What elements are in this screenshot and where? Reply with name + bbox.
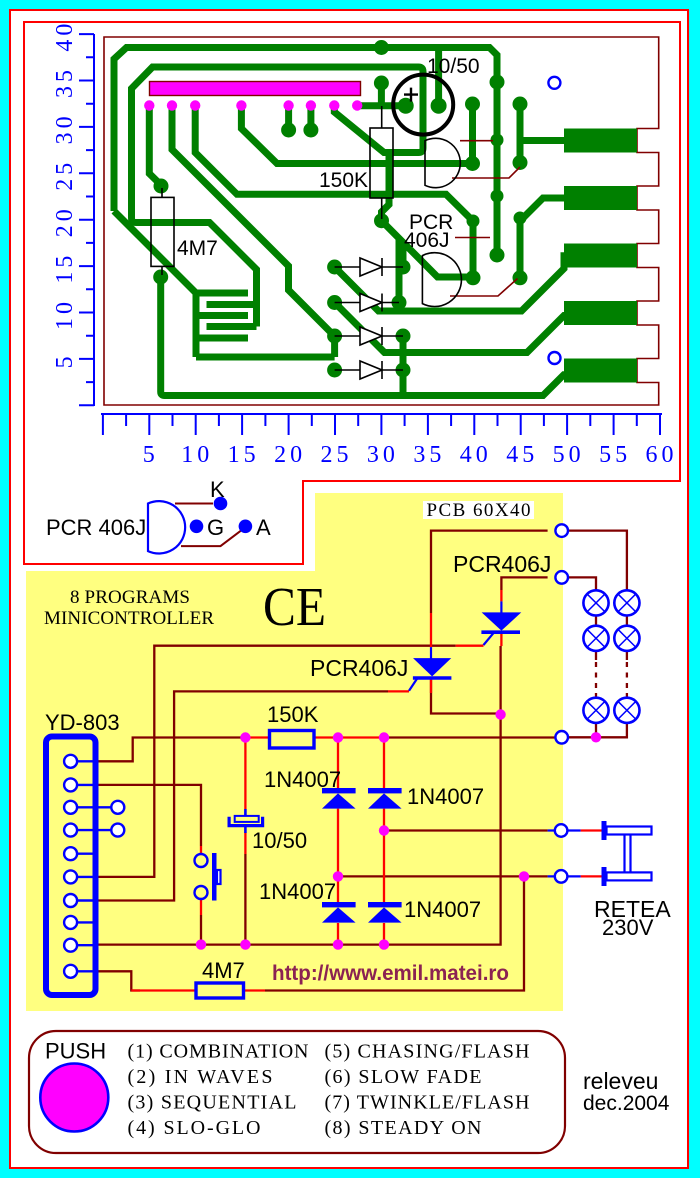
svg-text:PCR 406J: PCR 406J xyxy=(46,515,146,540)
wire red cap column xyxy=(244,738,246,855)
transistor T2 outline xyxy=(422,253,461,307)
wire body to K xyxy=(175,503,213,505)
wire diode1 cathode stub xyxy=(400,243,407,267)
wire trace2 pad7 to right comb xyxy=(132,67,424,327)
node circle 4 xyxy=(555,824,568,837)
wire diode2 staircase to bar4 xyxy=(335,303,572,353)
svg-text:40: 40 xyxy=(52,20,78,52)
capacitor pad minus xyxy=(431,98,447,114)
via dot diode2 anode xyxy=(327,295,342,310)
pin circle 4 xyxy=(64,824,77,837)
svg-text:55: 55 xyxy=(599,442,631,468)
via dot colF top xyxy=(514,212,527,225)
wire diode1 staircase to bar3 xyxy=(335,256,572,311)
via dot diode3 cathode xyxy=(396,329,411,344)
junction dot colA top xyxy=(333,732,343,742)
wire pin7 to triac1 gate xyxy=(97,691,388,900)
node circle 1 xyxy=(555,524,568,537)
diode D4 pcb xyxy=(335,361,403,379)
connector pad bar2 xyxy=(564,186,637,210)
resistor 150K body xyxy=(270,731,315,749)
via dot pad5 xyxy=(281,123,296,138)
wire red diode colA xyxy=(337,738,339,945)
pad6 xyxy=(306,100,316,110)
lamp 3 xyxy=(583,626,608,651)
svg-text:40: 40 xyxy=(460,442,492,468)
wire 4M7 to node5 riser xyxy=(265,876,524,990)
yellow schematic background xyxy=(26,571,563,1011)
mount hole top right xyxy=(548,77,560,89)
via dot diode2 cathode xyxy=(392,295,407,310)
svg-text:MINICONTROLLER: MINICONTROLLER xyxy=(44,608,214,629)
svg-text:(1) COMBINATION: (1) COMBINATION xyxy=(128,1041,309,1063)
wire 150K rail right xyxy=(384,736,555,738)
wire trace1 diagonal to serpentine xyxy=(114,211,196,293)
PCB board outline (maroon, notched right edge) xyxy=(104,37,659,405)
svg-text:10/50: 10/50 xyxy=(427,55,480,78)
junction dot rail push xyxy=(196,939,206,949)
wire lamp col2 lower solid xyxy=(626,651,628,698)
diode D1 schematic xyxy=(322,788,356,809)
junction dot lamp col1 bottom xyxy=(591,732,601,742)
capacitor 10/50 symbol xyxy=(229,809,263,833)
svg-text:(5) CHASING/FLASH: (5) CHASING/FLASH xyxy=(325,1041,530,1063)
wire body to A xyxy=(181,530,241,546)
svg-text:YD-803: YD-803 xyxy=(45,710,120,735)
svg-text:PCB 60X40: PCB 60X40 xyxy=(427,500,531,521)
pad4 xyxy=(236,100,246,110)
wire lamp col2 bottom to node3 xyxy=(568,723,627,737)
svg-text:406J: 406J xyxy=(404,229,450,252)
junction dot colB top xyxy=(379,732,389,742)
wire blue triac1 gate diag xyxy=(409,679,417,691)
wire pad6 stub xyxy=(307,106,314,128)
pad2 xyxy=(167,100,177,110)
via dot diode1 anode xyxy=(327,260,342,275)
svg-text:10: 10 xyxy=(181,442,213,468)
pin circle 6 xyxy=(64,870,77,883)
wire rail 830 xyxy=(384,829,548,831)
node circle 2 xyxy=(555,571,568,584)
svg-text:60: 60 xyxy=(646,442,678,468)
wire pin10 to 4M7 xyxy=(97,971,140,990)
push button circle xyxy=(40,1064,108,1132)
via dot trace1 top xyxy=(374,40,389,55)
svg-text:releveu: releveu xyxy=(583,1068,658,1094)
svg-text:dec.2004: dec.2004 xyxy=(583,1092,670,1115)
svg-text:10/50: 10/50 xyxy=(252,828,307,853)
resistor 4M7 body xyxy=(196,983,244,998)
via dot trace1 end xyxy=(490,248,505,263)
transistor T1 outline xyxy=(425,138,460,187)
junction dot rail cap xyxy=(240,939,250,949)
connector strip magenta bar xyxy=(150,82,361,96)
wire T2 pad2 to bar2 xyxy=(520,198,572,278)
push button knob xyxy=(217,870,221,884)
svg-text:PCR406J: PCR406J xyxy=(453,551,551,577)
silkscreen lead T2 bottom xyxy=(450,279,518,297)
pin circle 7 xyxy=(64,894,77,907)
svg-text:15: 15 xyxy=(52,252,78,284)
svg-text:150K: 150K xyxy=(319,169,368,192)
wire red triac2 bottom xyxy=(500,633,502,646)
wire triac1 bottom link xyxy=(431,679,501,714)
pad1 xyxy=(144,100,154,110)
via dot trace1 x497 b xyxy=(491,134,504,147)
horizontal ruler minor ticks xyxy=(126,414,637,426)
wire lamp col2 dashed xyxy=(626,662,628,692)
label PCB 60X40 xyxy=(423,501,534,519)
resistor 4M7 body outline xyxy=(151,197,174,266)
svg-text:CE: CE xyxy=(263,576,326,637)
connector pad bar3 xyxy=(564,244,637,268)
svg-text:30: 30 xyxy=(52,112,78,144)
lamp 2 xyxy=(614,590,639,615)
wire diode2 cathode stub xyxy=(396,238,403,303)
junction dot rail colA xyxy=(333,939,343,949)
pin K dot xyxy=(214,497,228,511)
svg-text:(4) SLO-GLO: (4) SLO-GLO xyxy=(128,1117,261,1139)
lamp 6 xyxy=(614,698,639,723)
resistor 150K body outline xyxy=(370,128,393,198)
wire lamp col1 mid xyxy=(595,616,597,626)
wire red triac2 top xyxy=(500,590,502,601)
wire red plug top xyxy=(581,829,603,831)
lamp 1 xyxy=(583,590,608,615)
via dot colC bottom xyxy=(513,155,528,170)
wire pad5 stub xyxy=(285,106,292,128)
via dot diode4 cathode xyxy=(396,363,411,378)
junction dot 150K left xyxy=(240,732,250,742)
vertical ruler axis xyxy=(93,34,95,406)
wire cap to rail maroon xyxy=(244,854,246,945)
pin circle 9 xyxy=(64,939,77,952)
wire blue triac2 gate diag xyxy=(484,633,494,645)
node circle 3 xyxy=(555,731,568,744)
svg-text:230V: 230V xyxy=(602,915,654,940)
via dot trace1 x497 c xyxy=(491,190,504,203)
wire blue triac2 top stub xyxy=(500,601,502,613)
capacitor C1 circle xyxy=(393,75,453,135)
wire diode3 anode to serpentine xyxy=(331,336,338,357)
svg-text:1N4007: 1N4007 xyxy=(404,897,481,922)
svg-text:30: 30 xyxy=(367,442,399,468)
svg-text:1N4007: 1N4007 xyxy=(407,784,484,809)
svg-text:(7) TWINKLE/FLASH: (7) TWINKLE/FLASH xyxy=(325,1092,530,1114)
via dot colA top xyxy=(465,97,480,112)
wire right comb fingers xyxy=(207,305,257,327)
connector pad bar5 xyxy=(564,359,637,383)
wire pad2 to diode3 xyxy=(172,106,335,337)
via dot T2 pad1 xyxy=(466,270,481,285)
vertical ruler labels (rotated) xyxy=(52,20,78,369)
push button plate xyxy=(212,853,217,901)
junction dot rail colB xyxy=(379,939,389,949)
pin circle 3 xyxy=(64,801,77,814)
mount hole bottom right xyxy=(549,352,561,364)
svg-text:1N4007: 1N4007 xyxy=(259,879,336,904)
wire red 150K left xyxy=(245,736,270,738)
pin4 external circle xyxy=(111,824,124,837)
diode D4 schematic xyxy=(368,902,402,923)
pin stubs YD-803 xyxy=(76,761,112,971)
via dot 4M7 top xyxy=(154,179,169,194)
node circle 5 xyxy=(555,870,568,883)
IC YD-803 body xyxy=(46,737,96,996)
svg-text:(2) IN WAVES: (2) IN WAVES xyxy=(128,1066,273,1088)
pin A dot xyxy=(239,520,253,534)
mains plug symbol xyxy=(602,821,652,886)
wire node1 to lamp col2 xyxy=(568,531,627,591)
diode D1 pcb xyxy=(335,258,403,276)
pin3 external circle xyxy=(111,801,124,814)
horizontal ruler axis xyxy=(101,413,662,415)
vertical ruler major ticks xyxy=(79,34,94,405)
wire red triac2 gate stub xyxy=(456,645,484,647)
wire triac2 bottom column xyxy=(499,646,501,716)
svg-text:4M7: 4M7 xyxy=(177,237,218,260)
pin circle 5 xyxy=(64,847,77,860)
wire pad8 to capacitor xyxy=(357,85,403,106)
triac Q2 PCR406J triangle xyxy=(483,613,520,630)
connector pad bar1 xyxy=(564,129,637,153)
junction dot rail830 colB xyxy=(379,825,389,835)
wire lamp col1 bottom xyxy=(595,723,597,737)
lamp 4 xyxy=(614,626,639,651)
wire 150K dot to T2 pad xyxy=(382,221,470,277)
wire red 4M7 left xyxy=(131,989,196,991)
via dot diode1 cathode xyxy=(396,260,411,275)
pin G dot xyxy=(190,520,204,534)
svg-text:15: 15 xyxy=(228,442,260,468)
horizontal ruler labels xyxy=(143,442,678,468)
push button terminal bottom xyxy=(195,886,208,899)
diode D2 pcb xyxy=(335,294,399,312)
svg-text:PUSH: PUSH xyxy=(45,1039,106,1064)
via dot diode3 anode xyxy=(327,329,342,344)
via dot diode4 anode xyxy=(327,363,342,378)
wire trace1 outer top-left xyxy=(114,48,497,256)
wire blue triac1 top stub xyxy=(430,647,432,659)
wire red 4M7 right xyxy=(244,989,266,991)
triac Q2 bar xyxy=(481,630,520,634)
svg-text:G: G xyxy=(207,515,224,540)
diode D3 pcb xyxy=(335,327,403,345)
program list rounded box xyxy=(29,1031,565,1153)
svg-text:35: 35 xyxy=(52,66,78,98)
wire rail 876 xyxy=(338,875,548,877)
svg-text:8 PROGRAMS: 8 PROGRAMS xyxy=(70,587,190,608)
svg-text:http://www.emil.matei.ro: http://www.emil.matei.ro xyxy=(272,962,509,985)
via dot 150K bottom xyxy=(374,213,389,228)
svg-text:4M7: 4M7 xyxy=(202,958,245,983)
pin circle 2 xyxy=(64,778,77,791)
svg-text:25: 25 xyxy=(321,442,353,468)
diode D3 schematic xyxy=(322,902,356,923)
pin circle 10 xyxy=(64,965,77,978)
wire red diode colB xyxy=(383,738,385,945)
capacitor pad plus xyxy=(398,98,414,114)
wire red triac1 top xyxy=(430,613,432,647)
wire red push column xyxy=(200,846,202,915)
svg-text:(6) SLOW FADE: (6) SLOW FADE xyxy=(325,1066,482,1088)
via dot colC top xyxy=(513,97,528,112)
svg-text:5: 5 xyxy=(143,442,159,468)
wire triac2 top to node2 xyxy=(501,577,547,590)
red PCB box border (L-shape) xyxy=(24,22,680,564)
wire 150K branch xyxy=(382,155,390,221)
push button terminal top xyxy=(195,854,208,867)
svg-text:20: 20 xyxy=(52,205,78,237)
via dot T2 pad2 xyxy=(513,270,528,285)
wire red plug bottom xyxy=(581,875,603,877)
wire pad3 to T2 pad1 xyxy=(195,106,473,278)
silkscreen lead T1 bottom xyxy=(452,167,520,178)
svg-text:(3) SEQUENTIAL: (3) SEQUENTIAL xyxy=(128,1092,297,1114)
wire blue node5 stubs xyxy=(548,875,581,877)
svg-text:50: 50 xyxy=(553,442,585,468)
wire node2 to lamp col1 xyxy=(568,577,596,590)
svg-text:1N4007: 1N4007 xyxy=(264,767,341,792)
wire via column to bar1 xyxy=(520,104,572,163)
svg-text:150K: 150K xyxy=(267,702,319,727)
junction dot triac bottoms xyxy=(495,709,505,719)
silkscreen lead T1 right xyxy=(460,140,493,142)
capacitor C1 plus sign xyxy=(404,88,418,102)
pad7 xyxy=(329,100,339,110)
svg-text:10: 10 xyxy=(52,298,78,330)
junction dot riser 524 xyxy=(519,871,529,881)
diode D2 schematic xyxy=(368,788,402,809)
wire lamp col1 lower solid xyxy=(595,651,597,698)
wire red 150K right xyxy=(315,736,384,738)
svg-text:45: 45 xyxy=(506,442,538,468)
pin circle 1 xyxy=(64,755,77,768)
wire red triac1 gate stub xyxy=(388,690,409,692)
svg-text:5: 5 xyxy=(52,352,78,368)
wire triac1 top to node1 xyxy=(431,531,548,613)
wire pin6 to triac2 gate xyxy=(97,646,456,877)
wire 4M7 bottom to bar5 xyxy=(161,276,572,396)
svg-text:20: 20 xyxy=(274,442,306,468)
wire pin1 to 150K rail xyxy=(97,738,245,762)
transistor body outline pinout xyxy=(148,501,185,553)
wire blue node4 stubs xyxy=(548,829,581,831)
via dot trace1 x497 a xyxy=(490,75,505,90)
via dot pad6 xyxy=(303,123,318,138)
wire lamp col1 dashed xyxy=(595,662,597,692)
connector pad bar4 xyxy=(564,301,637,325)
silkscreen lead T2 right xyxy=(455,237,490,239)
svg-text:35: 35 xyxy=(413,442,445,468)
svg-text:25: 25 xyxy=(52,159,78,191)
wire lamp col2 mid xyxy=(626,616,628,626)
wire pin2 to push xyxy=(97,785,201,846)
via dot cross xyxy=(374,76,389,91)
junction dot rail876 colA xyxy=(333,871,343,881)
lamp 5 xyxy=(583,698,608,723)
wire serpentine comb left xyxy=(196,290,335,357)
pad8 xyxy=(352,100,362,110)
wire pad4 to via xyxy=(241,104,472,164)
wire bottom rail xyxy=(97,716,501,945)
pad3 xyxy=(190,100,200,110)
triac Q1 bar xyxy=(413,676,452,680)
vertical ruler minor ticks xyxy=(86,57,94,382)
wire diode3 cathode down to bottom trace xyxy=(400,336,407,393)
wire capacitor pad2 up to trace1 xyxy=(435,49,442,106)
via dot 4M7 bottom xyxy=(153,270,168,285)
wire pad1 to 4M7 xyxy=(149,106,161,186)
svg-text:PCR406J: PCR406J xyxy=(310,655,408,681)
svg-text:A: A xyxy=(256,515,271,540)
pad5 xyxy=(283,100,293,110)
via dot colA bottom xyxy=(465,156,480,171)
resistor 150K leads xyxy=(381,106,383,219)
svg-text:(8) STEADY ON: (8) STEADY ON xyxy=(325,1117,482,1139)
triac Q1 PCR406J triangle xyxy=(414,659,450,676)
via dot colD top xyxy=(467,215,480,228)
pin circle 8 xyxy=(64,916,77,929)
wire push to rail xyxy=(200,915,202,945)
wire red triac1 bottom xyxy=(430,679,432,693)
svg-text:K: K xyxy=(210,477,225,502)
resistor 4M7 leads xyxy=(161,188,163,275)
horizontal ruler major ticks xyxy=(103,414,660,435)
